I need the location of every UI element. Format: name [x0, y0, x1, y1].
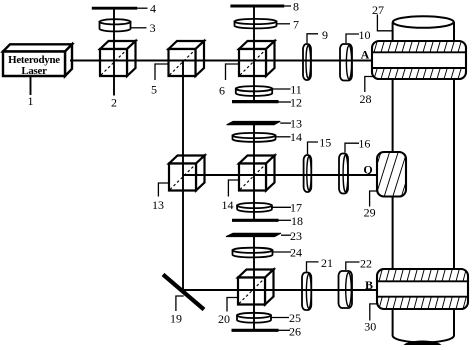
svg-text:Q: Q	[363, 162, 372, 176]
svg-text:17: 17	[290, 201, 302, 215]
svg-text:27: 27	[372, 3, 384, 17]
svg-text:29: 29	[364, 206, 376, 220]
svg-text:1: 1	[28, 94, 34, 108]
svg-text:18: 18	[291, 214, 303, 228]
svg-text:3: 3	[150, 21, 156, 35]
svg-text:16: 16	[358, 137, 370, 151]
svg-text:8: 8	[293, 0, 299, 14]
svg-text:14: 14	[222, 198, 234, 212]
svg-text:14: 14	[290, 130, 302, 144]
svg-text:26: 26	[289, 324, 301, 338]
svg-text:11: 11	[290, 82, 302, 96]
svg-text:23: 23	[290, 229, 302, 243]
svg-text:7: 7	[293, 17, 299, 31]
svg-text:25: 25	[289, 311, 301, 325]
svg-text:B: B	[365, 278, 373, 292]
svg-text:21: 21	[321, 256, 333, 270]
svg-text:5: 5	[151, 83, 157, 97]
svg-text:19: 19	[170, 311, 182, 325]
svg-text:15: 15	[319, 136, 331, 150]
svg-text:Heterodyne: Heterodyne	[8, 54, 60, 66]
svg-text:13: 13	[290, 117, 302, 131]
svg-text:A: A	[361, 47, 370, 61]
svg-text:13: 13	[152, 198, 164, 212]
svg-text:Laser: Laser	[21, 65, 47, 77]
svg-text:2: 2	[111, 96, 117, 110]
svg-text:24: 24	[290, 245, 302, 259]
svg-text:12: 12	[290, 96, 302, 110]
svg-text:9: 9	[322, 28, 328, 42]
svg-text:6: 6	[219, 84, 225, 98]
svg-text:20: 20	[218, 312, 230, 326]
svg-text:4: 4	[150, 1, 156, 15]
svg-text:22: 22	[360, 256, 372, 270]
svg-text:28: 28	[360, 92, 372, 106]
svg-text:10: 10	[359, 28, 371, 42]
svg-text:30: 30	[364, 319, 376, 333]
